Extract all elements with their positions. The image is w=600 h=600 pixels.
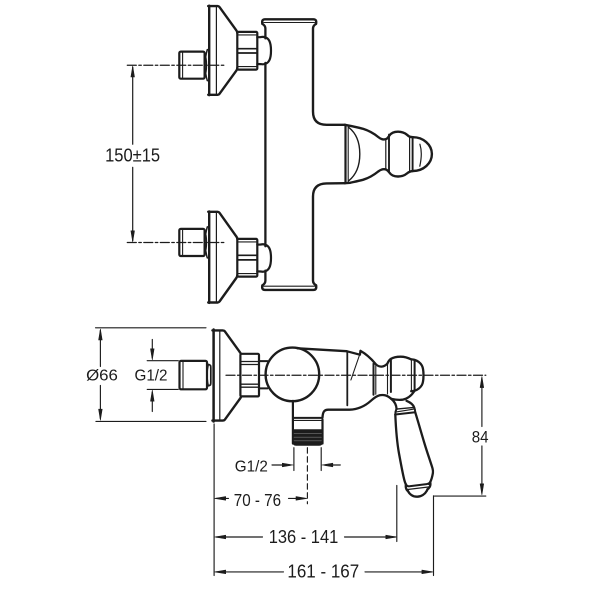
bottom outline: housing to lever (323, 395, 392, 417)
bottom union: escutcheon flange (208, 211, 237, 303)
ball right lines (409, 137, 411, 172)
outer outline top edge (345, 125, 413, 140)
top union: dome into body (257, 37, 271, 64)
svg-text:G1/2: G1/2 (235, 459, 268, 476)
bell left edge (344, 125, 346, 183)
svg-text:84: 84 (472, 429, 489, 447)
bottom union: nut (237, 239, 257, 277)
handle (front, pointing to viewer) (345, 125, 432, 183)
svg-text:150±15: 150±15 (105, 146, 160, 167)
joint vertical (346, 351, 348, 405)
bell face arc (349, 128, 360, 181)
G1/2 outlet arrows (272, 464, 283, 466)
side nipple (180, 361, 211, 389)
cap outline (413, 137, 432, 171)
svg-text:70 - 76: 70 - 76 (234, 490, 281, 510)
136-141 (216, 536, 263, 538)
threaded end (dark) (293, 430, 322, 445)
bottom union: dome into body (257, 244, 271, 271)
ferrule (406, 482, 431, 497)
top union centerline (127, 64, 224, 66)
side nut (240, 354, 259, 397)
O66 dimension (96, 327, 207, 329)
body right edge with handle shelf (313, 24, 345, 125)
neck lines (373, 364, 375, 395)
svg-text:G1/2: G1/2 (135, 367, 168, 384)
svg-text:136 - 141: 136 - 141 (269, 526, 339, 547)
outlet below sphere (293, 401, 323, 445)
84 dimension (481, 378, 483, 427)
wall extension line (213, 424, 215, 576)
dimension 150±15 (131, 66, 135, 242)
outlet extension lines (293, 448, 295, 471)
waist lines (385, 140, 387, 169)
svg-text:161 - 167: 161 - 167 (287, 561, 359, 582)
lever shaft (391, 399, 396, 409)
grip body (395, 415, 406, 485)
body bottom cap (262, 285, 316, 290)
top union: escutcheon flange (208, 6, 237, 96)
70-76 (216, 497, 229, 499)
valve sphere body (266, 348, 320, 402)
161-167 (216, 571, 284, 573)
bottom union: wall nipple G1/2 (179, 227, 209, 258)
ball knob (387, 357, 423, 400)
stubs nut to sphere (259, 360, 268, 362)
collar (395, 407, 415, 414)
cap inner arc (420, 144, 422, 166)
top union: nut (237, 32, 257, 70)
step cone (347, 351, 361, 355)
G1/2 left dimension (151, 340, 153, 358)
body top cap (262, 19, 316, 24)
main centerline (226, 374, 486, 376)
body left edge (interrupted by union domes) (262, 24, 265, 39)
outer outline bottom edge (345, 169, 413, 183)
housing top line (298, 348, 347, 351)
bottom union centerline (127, 242, 224, 244)
side escutcheon flange (212, 330, 241, 422)
top union: wall nipple G1/2 (179, 50, 209, 81)
svg-text:Ø66: Ø66 (86, 368, 118, 385)
